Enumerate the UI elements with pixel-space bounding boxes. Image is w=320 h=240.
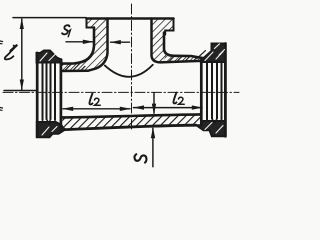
right collar left edge <box>200 60 203 125</box>
right collar right edge <box>224 44 227 137</box>
scan speck left edge lower <box>0 108 3 111</box>
branch bore right wall <box>152 19 201 63</box>
arrowhead s down <box>152 104 156 115</box>
run bottom outer edge <box>65 125 196 129</box>
right collar rib 3 <box>216 63 218 119</box>
left collar top cap <box>37 51 62 63</box>
branch outer wall right with fillet <box>164 33 203 59</box>
right collar rib 2 <box>211 63 213 119</box>
dimension l2 left line <box>63 108 130 110</box>
right collar top chamfer line <box>197 51 206 59</box>
arrowhead l2 left-end <box>120 107 131 111</box>
label l2 right <box>173 93 184 105</box>
flange top edge <box>87 17 174 20</box>
arrowhead l1 bottom <box>20 80 24 91</box>
cap white flecks <box>40 44 225 135</box>
branch outer wall left with fillet into run top <box>61 28 94 64</box>
branch right wall hatched section <box>152 19 204 63</box>
run top-left wall band hatch <box>61 64 91 71</box>
left collar rib 1 <box>42 63 44 120</box>
arrowhead l2 left-start <box>62 107 73 111</box>
arrowhead l2 right-start <box>133 105 144 109</box>
dimension l1 extension line top <box>13 17 86 19</box>
left collar right edge <box>60 60 63 132</box>
arrowhead S1 right <box>110 40 121 44</box>
right collar rib 4 <box>221 63 223 120</box>
left collar bottom cap <box>37 122 65 137</box>
left collar rib 3 <box>50 63 52 119</box>
dimension l2 right line <box>134 107 203 109</box>
flange right lip <box>165 19 173 35</box>
dimension l1 extension line bottom <box>4 90 36 92</box>
left collar rib 2 <box>46 63 48 119</box>
vertical centerline of branch <box>131 4 133 129</box>
arrowhead s up <box>151 127 155 138</box>
label l2 left <box>89 94 100 106</box>
flange left lip <box>87 19 95 28</box>
right collar bottom cap <box>196 121 225 136</box>
right collar bore chamfer <box>212 119 217 124</box>
label S1 <box>61 25 71 36</box>
left collar rib 4 <box>54 63 56 120</box>
run top-right wall band hatch <box>162 56 200 62</box>
label l1 rotated script ell with subscript 1 <box>5 45 17 59</box>
dimension S1 arrow right line <box>111 41 130 43</box>
branch left wall hatched section <box>61 19 108 72</box>
run bottom wall hatched section <box>62 114 201 129</box>
dimension l1 line <box>21 19 23 90</box>
dimension s upper arrow line <box>153 93 155 113</box>
dimension S1 arrow left line <box>66 41 93 43</box>
bore intersection arc <box>105 65 153 77</box>
right collar top cap <box>201 44 225 63</box>
arrowhead l2 right-end <box>192 105 203 109</box>
left collar bore chamfer <box>47 119 51 124</box>
run bore bottom line <box>62 114 201 117</box>
scan speck left edge upper <box>0 41 3 44</box>
arrowhead S1 left <box>83 40 94 44</box>
left collar left edge <box>36 53 39 137</box>
dimension s lower arrow line <box>152 128 154 167</box>
right collar rib 1 <box>206 63 208 120</box>
branch bore left wall <box>61 19 108 72</box>
arrowhead l1 top <box>20 18 24 29</box>
label s rotated <box>134 154 146 162</box>
horizontal centerline of run <box>3 91 239 93</box>
